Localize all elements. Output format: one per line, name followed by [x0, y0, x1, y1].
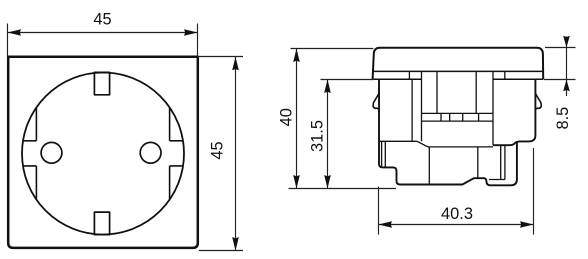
svg-text:8.5: 8.5 [554, 107, 572, 130]
svg-text:45: 45 [209, 141, 227, 159]
svg-text:31.5: 31.5 [309, 120, 327, 152]
svg-text:45: 45 [93, 11, 111, 29]
svg-text:40: 40 [277, 108, 295, 126]
svg-text:40.3: 40.3 [441, 205, 473, 223]
